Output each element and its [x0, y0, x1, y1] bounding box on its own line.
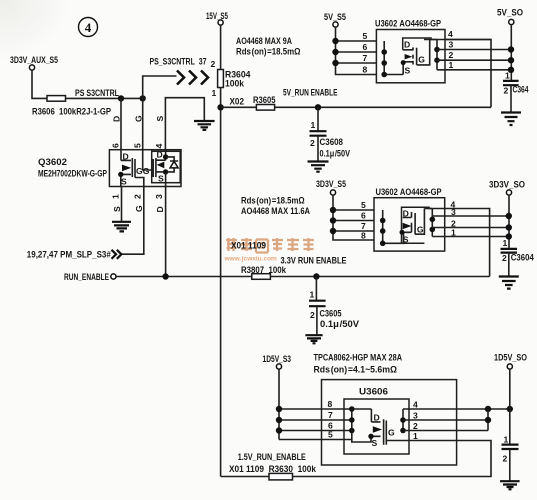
svg-text:1: 1 — [504, 435, 509, 445]
junction — [508, 67, 514, 73]
svg-text:G: G — [418, 54, 425, 64]
junction — [332, 49, 338, 55]
junction — [313, 273, 319, 279]
pin numbers 1 2 3 bottom — [111, 194, 165, 199]
svg-text:G: G — [417, 224, 424, 234]
svg-text:R3807 100k: R3807 100k — [241, 265, 287, 275]
junction — [506, 233, 512, 239]
svg-text:100k: 100k — [225, 79, 245, 89]
wire run enable to gate — [270, 276, 489, 278]
svg-text:S: S — [155, 116, 165, 122]
pin 2 wire U3606 — [403, 430, 488, 432]
svg-text:6: 6 — [111, 143, 121, 148]
svg-text:Rds (on) =4.1~5.6mΩ: Rds (on) =4.1~5.6mΩ — [314, 365, 398, 375]
wire pin1 lead — [121, 187, 123, 222]
svg-text:1D5V_S3: 1D5V_S3 — [263, 354, 292, 364]
body diode — [166, 157, 179, 172]
svg-text:ME2H7002DKW-G-GP: ME2H7002DKW-G-GP — [38, 169, 107, 179]
terminal 5V_S5 — [333, 22, 338, 27]
svg-text:2: 2 — [449, 50, 454, 60]
transistor U3602b outer box — [374, 198, 445, 251]
transistor U3606 inner box — [344, 399, 409, 454]
svg-text:U3602 AO4468-GP: U3602 AO4468-GP — [376, 187, 442, 197]
pin labels 5 6 7 8 U3602b — [361, 200, 366, 241]
pin 2 wire U3602a — [437, 59, 511, 61]
wire 5V run enable — [275, 106, 491, 108]
svg-text:2: 2 — [502, 253, 507, 263]
svg-text:0.1μ /50V: 0.1μ /50V — [320, 319, 360, 329]
junction — [400, 417, 406, 423]
svg-text:Rds (on) =18.5mΩ: Rds (on) =18.5mΩ — [241, 196, 305, 206]
svg-text:U3602 AO4468-GP: U3602 AO4468-GP — [375, 19, 441, 29]
wire inner drain bus U3606 — [402, 409, 404, 431]
svg-text:2: 2 — [211, 59, 216, 69]
junction — [349, 406, 355, 412]
pin labels 8 7 6 5 U3606 — [328, 399, 334, 440]
svg-text:5: 5 — [133, 143, 143, 148]
svg-text:RUN_ENABLE: RUN_ENABLE — [64, 272, 109, 282]
svg-text:G: G — [134, 205, 144, 212]
svg-text:7: 7 — [363, 53, 368, 63]
wire 3D3V_SO bus — [508, 195, 510, 249]
svg-text:AO4468 MAX 9A: AO4468 MAX 9A — [236, 36, 292, 46]
svg-text:R3606 100kR2J-1-GP: R3606 100kR2J-1-GP — [32, 107, 111, 117]
svg-text:C364: C364 — [513, 85, 530, 95]
svg-text:19,27,47 PM_SLP_S3#: 19,27,47 PM_SLP_S3# — [27, 250, 112, 260]
svg-text:4: 4 — [154, 144, 164, 149]
wire — [66, 97, 143, 99]
junction — [508, 46, 514, 52]
wire gate return U3602a — [445, 40, 491, 108]
svg-text:1: 1 — [451, 228, 456, 238]
pin labels 4 3 2 1 U3602a — [448, 29, 454, 70]
svg-text:PS_S3CNTRL 37: PS_S3CNTRL 37 — [150, 57, 207, 67]
off-page arrow chevrons PM_SLP — [112, 250, 122, 259]
wire pin5 lead — [142, 98, 144, 149]
wire pin3 lead — [165, 187, 167, 277]
ground pin4 — [194, 121, 215, 130]
svg-text:C3605: C3605 — [320, 309, 342, 319]
junction — [434, 47, 440, 53]
svg-text:8: 8 — [328, 399, 333, 409]
terminal 3D3V_AUX_S5 — [29, 65, 34, 70]
svg-text:S: S — [405, 66, 411, 76]
svg-text:D: D — [374, 413, 380, 423]
resistor R3604 — [218, 70, 224, 88]
junction — [380, 228, 386, 234]
wire 3D3V_S5 bus — [333, 195, 374, 240]
pin labels 4 3 2 1 U3606 — [413, 400, 418, 442]
svg-text:4: 4 — [413, 400, 418, 410]
svg-text:6: 6 — [363, 42, 368, 52]
svg-text:3: 3 — [413, 411, 418, 421]
pin 1 wire U3606 gate return — [293, 441, 492, 477]
svg-text:D: D — [157, 150, 163, 160]
capacitor C output — [502, 435, 519, 481]
junction — [332, 38, 338, 44]
terminal 1D5V_S3 — [276, 364, 281, 369]
wire to off-page arrows — [143, 76, 177, 98]
pin 3 wire U3606 — [403, 409, 488, 431]
svg-text:S: S — [372, 438, 378, 448]
pin labels 4 3 2 1 U3602b — [451, 200, 457, 238]
svg-text:8: 8 — [361, 231, 366, 241]
mosfet Q3602 left fet — [118, 150, 153, 187]
svg-text:1.5V_RUN_ENABLE: 1.5V_RUN_ENABLE — [238, 452, 306, 462]
wire — [32, 70, 47, 98]
svg-text:1: 1 — [212, 88, 217, 98]
svg-text:X01 1109 R3630 100k: X01 1109 R3630 100k — [229, 464, 317, 474]
svg-text:S: S — [403, 235, 409, 245]
junction — [434, 57, 440, 63]
svg-text:1: 1 — [503, 238, 508, 248]
terminal 1D5V_SO — [507, 364, 512, 369]
terminal 3D3V_SO — [506, 190, 511, 195]
junction — [381, 49, 387, 55]
svg-text:1: 1 — [111, 194, 121, 199]
svg-text:1: 1 — [413, 431, 418, 441]
ground pin1 — [112, 222, 131, 232]
svg-text:2: 2 — [503, 454, 508, 464]
junction — [276, 417, 282, 423]
junction — [485, 417, 491, 423]
svg-text:D: D — [112, 116, 122, 122]
pin 2 wire U3602b — [432, 227, 509, 229]
svg-text:3.3V RUN ENABLE: 3.3V RUN ENABLE — [281, 256, 347, 266]
watermark orange glyphs — [226, 238, 314, 253]
junction — [276, 406, 282, 412]
svg-text:U3606: U3606 — [359, 387, 388, 397]
wire — [220, 25, 222, 69]
pin letters D G S top — [112, 115, 166, 122]
svg-text:R3605: R3605 — [253, 95, 276, 105]
pin numbers 6 5 4 top — [111, 143, 165, 149]
mosfet Q3602 right fet — [153, 150, 178, 187]
resistor R3807 — [252, 274, 271, 280]
pin 3 wire U3602b — [432, 215, 509, 217]
wire 15V vertical rail — [220, 88, 222, 477]
junction — [349, 417, 355, 423]
junction — [485, 406, 491, 412]
svg-text:D: D — [155, 206, 165, 212]
svg-text:4: 4 — [85, 20, 92, 35]
terminal 3D3V_S5 — [330, 190, 335, 195]
capacitor C364 — [503, 71, 529, 113]
junction — [140, 95, 146, 101]
mosfet U3602a symbol — [401, 40, 430, 76]
pin 1 wire U3602b — [432, 236, 509, 238]
svg-text:X01 1109: X01 1109 — [231, 241, 266, 251]
junction — [400, 428, 406, 434]
pin 4 wire U3602a — [424, 39, 491, 41]
ground C3608 — [308, 162, 329, 172]
svg-text:5V_SO: 5V_SO — [497, 8, 523, 18]
svg-text:Rds (on) =18.5mΩ: Rds (on) =18.5mΩ — [236, 47, 301, 57]
pin 4 wire U3602b gate return — [424, 209, 489, 277]
resistor R3630 — [269, 473, 293, 480]
pin letters S G D bottom — [112, 205, 165, 213]
junction — [162, 273, 168, 279]
junction — [276, 427, 282, 433]
svg-text:D: D — [123, 152, 129, 162]
svg-text:1: 1 — [311, 120, 316, 130]
svg-text:5: 5 — [363, 31, 368, 41]
svg-text:2: 2 — [310, 138, 315, 148]
svg-text:1: 1 — [310, 290, 315, 300]
capacitor C3605 — [309, 277, 360, 335]
svg-text:5V_S5: 5V_S5 — [324, 12, 346, 22]
wire bottom run — [221, 476, 269, 478]
junction — [349, 428, 355, 434]
junction — [380, 241, 386, 247]
svg-text:3: 3 — [449, 40, 454, 50]
wire pin4 lead to ground — [165, 98, 204, 150]
junction — [506, 224, 512, 230]
transistor Q3602 box — [109, 150, 181, 187]
wire pin2 lead — [121, 187, 144, 255]
svg-text:3: 3 — [154, 194, 164, 199]
svg-text:5V_RUN ENABLE: 5V_RUN ENABLE — [283, 88, 338, 98]
svg-text:5: 5 — [361, 200, 366, 210]
wire — [221, 106, 257, 108]
svg-text:2: 2 — [504, 86, 509, 96]
wire inner drain bus U3602b — [431, 209, 433, 237]
pin 4 wire U3606 — [403, 408, 510, 410]
svg-text:2: 2 — [133, 194, 143, 199]
svg-text:C3604: C3604 — [511, 253, 535, 263]
svg-text:S: S — [112, 206, 122, 212]
junction — [380, 218, 386, 224]
junction — [381, 72, 387, 78]
ground C364 — [501, 113, 521, 126]
ground C3605 — [305, 335, 322, 343]
svg-text:8: 8 — [363, 65, 368, 75]
mosfet U3606 symbol — [368, 409, 409, 448]
svg-text:TPCA8062-HGP MAX 28A: TPCA8062-HGP MAX 28A — [314, 353, 403, 363]
junction — [430, 227, 436, 233]
svg-text:PS S3CNTRL: PS S3CNTRL — [75, 88, 119, 98]
svg-text:Q3602: Q3602 — [38, 157, 67, 167]
svg-text:3D3V_AUX_S5: 3D3V_AUX_S5 — [10, 55, 58, 65]
transistor U3602a inner frame — [403, 38, 437, 50]
wire inner bus U3606 — [352, 409, 371, 442]
wire 1D5V_S3 bus — [279, 369, 371, 439]
svg-text:D: D — [404, 40, 410, 50]
svg-text:15V_S5: 15V_S5 — [206, 11, 228, 21]
svg-text:1D5V_SO: 1D5V_SO — [494, 353, 527, 363]
ground C3604 — [499, 277, 519, 289]
wire 1D5V_SO bus — [509, 369, 511, 444]
terminal RUN_ENABLE — [111, 274, 116, 279]
junction — [330, 217, 336, 223]
svg-text:5: 5 — [328, 430, 333, 440]
transistor U3606 outer box — [322, 380, 457, 465]
svg-text:S: S — [158, 174, 164, 184]
pin 3 wire U3602a — [437, 49, 511, 51]
svg-text:3D3V_S5: 3D3V_S5 — [316, 179, 346, 189]
svg-text:G: G — [133, 115, 143, 122]
wire run enable — [116, 276, 252, 278]
junction X02 — [217, 104, 223, 110]
terminal 15V_S5 — [218, 20, 223, 25]
junction — [430, 217, 436, 223]
svg-text:2: 2 — [310, 310, 315, 320]
svg-text:7: 7 — [361, 221, 366, 231]
capacitor C3604 — [501, 238, 535, 276]
junction — [315, 104, 321, 110]
svg-text:S: S — [121, 177, 127, 187]
transistor U3602b inner frame — [402, 207, 433, 243]
transistor Q3602 inner box — [152, 151, 181, 182]
wire 5V_S5 bus — [336, 27, 377, 74]
svg-text:7: 7 — [328, 410, 333, 420]
ground C output — [500, 481, 520, 489]
svg-text:2: 2 — [413, 421, 418, 431]
svg-text:AO4468 MAX 11.6A: AO4468 MAX 11.6A — [241, 206, 310, 216]
svg-text:1: 1 — [449, 60, 454, 70]
terminal 5V_SO — [509, 19, 514, 24]
junction — [508, 57, 514, 63]
svg-text:6: 6 — [361, 211, 366, 221]
resistor R3606 — [47, 96, 66, 102]
pin labels 5 6 7 8 U3602a — [363, 31, 368, 75]
wire inner source bus U3602a — [384, 41, 403, 75]
wire inner source bus U3602b — [383, 210, 404, 243]
junction — [330, 207, 336, 213]
off-page arrow chevrons — [177, 71, 208, 85]
junction — [506, 213, 512, 219]
svg-text:1: 1 — [505, 71, 510, 81]
svg-text:3D3V_SO: 3D3V_SO — [489, 180, 525, 190]
sheet number circle 4 — [79, 18, 98, 37]
wire inner drain bus U3602a — [436, 40, 438, 70]
junction — [118, 95, 124, 101]
svg-text:4: 4 — [448, 29, 453, 39]
junction — [332, 60, 338, 66]
svg-text:0.1μ /50V: 0.1μ /50V — [320, 149, 351, 159]
junction — [507, 406, 513, 412]
wire 5V_SO bus — [510, 25, 512, 81]
svg-text:G: G — [388, 428, 395, 438]
mosfet U3602b symbol — [400, 208, 425, 244]
resistor R3605 — [256, 105, 274, 111]
junction — [381, 60, 387, 66]
capacitor C3608 — [310, 107, 351, 161]
wire pin6 lead — [120, 98, 122, 149]
pin 1 wire U3602a — [437, 69, 511, 71]
transistor U3602a outer box — [376, 30, 445, 83]
svg-text:www. jcwxiu.com: www. jcwxiu.com — [224, 256, 278, 263]
svg-text:X02: X02 — [230, 97, 245, 107]
svg-text:3: 3 — [451, 207, 456, 217]
junction — [330, 228, 336, 234]
svg-text:C3608: C3608 — [320, 137, 344, 147]
